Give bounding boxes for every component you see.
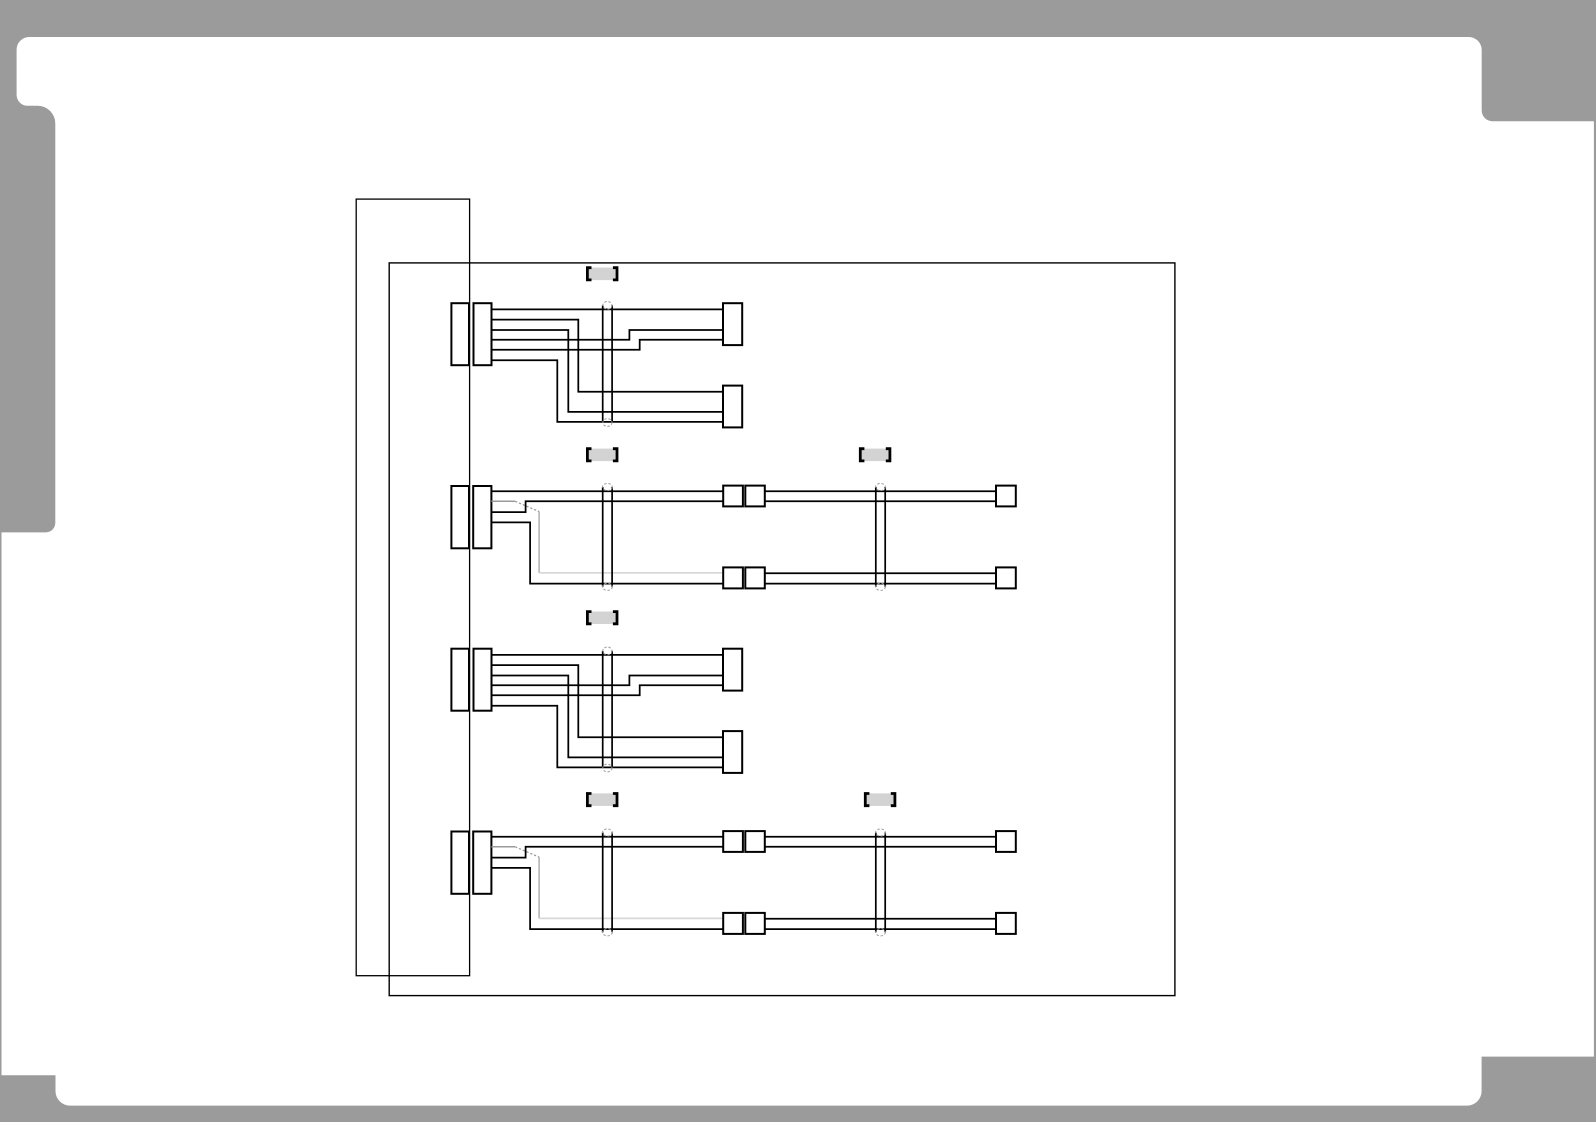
inline connector 4 upper right [745,831,765,852]
connector CN1A housing left half [451,303,469,365]
wire 4-2 gray drop [538,857,540,918]
wire 4-2 gray lead [491,846,515,848]
cable 2 upper run wire a [765,490,996,492]
cable clamp row 4 left sleeve sides [603,833,612,933]
wire 2-1 top [491,490,723,492]
cable clamp row 2 right top ring [876,483,886,490]
cable clamp row 4 right bottom ring [876,929,886,936]
connector CN2A housing right half [473,486,491,548]
cable 4 upper run wire b [765,846,996,848]
connector CN1C lower [723,386,742,428]
wire 3-4 [492,676,724,686]
terminal 2 upper [996,486,1016,507]
wire 2-2 light gray run [539,572,723,574]
wire 4-3 crossover [491,847,723,858]
row 4 right right bracket [891,792,897,807]
cable clamp row 1 bottom ring [603,419,612,427]
wire 4-2 gray crossover diagonal [515,847,539,857]
connector CN2A housing left half [451,486,469,548]
connector CN3A housing right half [474,649,492,711]
cable 4 lower run wire a [765,918,996,920]
connector CN3C lower [723,731,742,773]
cable clamp row 2 left bottom ring [603,583,613,590]
cable clamp row 4 right sleeve sides [876,833,885,933]
cable clamp row 3 sleeve sides [603,651,612,768]
wire 1-6 [492,360,724,422]
cable clamp row 3 top ring [603,647,612,655]
wire 4-2 light gray run [539,917,723,919]
terminal 2 lower [996,567,1016,588]
wire 1-4 [492,330,724,340]
inline connector 4 upper left [723,831,743,852]
wire 3-3 [492,676,724,758]
wire 2-2 gray drop [538,512,540,573]
wire 1-5 [492,340,724,350]
wire 1-2 [492,320,724,392]
wire 1-3 [492,330,724,412]
row 4 right label plate [867,793,894,806]
terminal 4 upper [996,831,1016,852]
cable 2 lower run wire b [765,583,996,585]
wire 2-2 gray crossover diagonal [515,501,539,511]
wire 3-6 [492,706,724,768]
row 2 right right bracket [886,447,892,462]
row 3 left bracket [586,610,592,625]
inline connector 2 lower left [723,567,743,588]
wire 3-1 [492,654,724,656]
row 2 right label plate [862,449,889,462]
cable 2 lower run wire a [765,572,996,574]
wire 1-1 [492,308,724,310]
row 1 label plate [589,268,616,281]
row 2 right left bracket [859,447,865,462]
connector CN4A housing left half [451,832,469,894]
cable clamp row 2 left sleeve sides [603,487,612,587]
connector CN3A housing left half [451,649,469,711]
cable 4 lower run wire b [765,928,996,930]
row 3 label plate [589,612,616,625]
cable 4 upper run wire a [765,836,996,838]
row 4 left right bracket [613,792,619,807]
connector CN1B upper [723,303,742,345]
connector CN1A housing right half [474,303,492,365]
row 4 left label plate [589,793,616,806]
wire 4-4 bottom [491,868,723,929]
inline connector 4 lower left [723,913,743,934]
wire 4-1 top [491,836,723,838]
wire 3-5 [492,685,724,695]
cable clamp row 1 top ring [603,302,612,310]
inline connector 2 upper left [723,486,743,507]
wire 2-3 crossover [491,501,723,512]
cable clamp row 1 sleeve sides [603,305,612,422]
row 1 right bracket [613,266,619,281]
cable clamp row 2 left top ring [603,483,613,490]
cable 2 upper run wire b [765,500,996,502]
row 4 left left bracket [586,792,592,807]
row 2 left right bracket [613,447,619,462]
wire 2-2 gray lead [491,500,515,502]
row 4 right left bracket [864,792,870,807]
cable clamp row 4 left top ring [603,829,613,836]
inline connector 2 lower right [745,567,765,588]
wire 3-2 [492,665,724,737]
terminal 4 lower [996,913,1016,934]
connector CN4A housing right half [473,832,491,894]
row 2 left left bracket [586,447,592,462]
cable clamp row 4 right top ring [876,829,886,836]
row 1 left bracket [586,266,592,281]
row 2 left label plate [589,449,616,462]
cable clamp row 3 bottom ring [603,764,612,772]
cable clamp row 2 right sleeve sides [876,487,885,587]
row 3 right bracket [613,610,619,625]
cable clamp row 4 left bottom ring [603,929,613,936]
inline connector 2 upper right [745,486,765,507]
connector CN3B upper [723,649,742,691]
inline connector 4 lower right [745,913,765,934]
wire 2-4 bottom [491,522,723,583]
outer unit box (tall) [356,199,469,976]
main chassis box [389,263,1175,996]
cable clamp row 2 right bottom ring [876,583,886,590]
